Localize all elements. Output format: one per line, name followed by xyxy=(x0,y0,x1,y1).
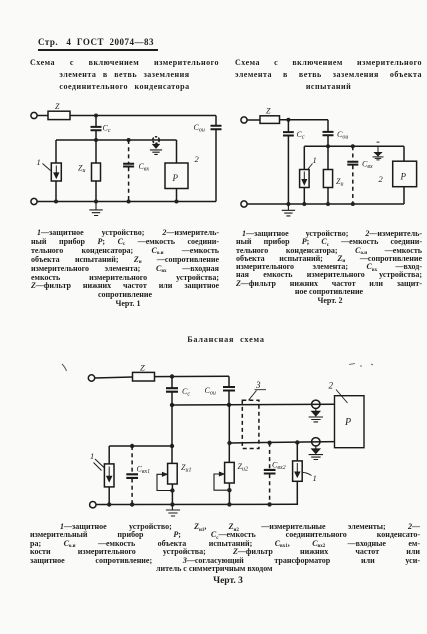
wire fig3: bottom bus xyxy=(96,503,297,505)
ground under inner bus fig2 xyxy=(373,142,384,160)
scan speckle near fig3 input xyxy=(62,364,67,371)
wire fig3: right device 1 to bottom bus corner xyxy=(295,481,297,504)
junction: left sub-bus at C_вх1 xyxy=(130,444,134,448)
right column heading xyxy=(235,57,422,93)
junction: bottom bus at Z_и2 xyxy=(227,502,231,506)
capacitor C_c fig1: upper lead xyxy=(95,116,97,127)
junction: left sub-bus at Z_и1 xyxy=(170,444,174,448)
svg-text:Zи1: Zи1 xyxy=(181,463,191,474)
capacitor C_ои fig1: upper lead on right drop xyxy=(215,116,217,126)
wire fig2: Z_и to bottom bus xyxy=(327,188,329,205)
shield circle on lower bus fig3 xyxy=(312,438,320,446)
wire fig2: top bus from Z to C_ои corner xyxy=(280,119,329,121)
junction: fig2 bottom bus at Z_и xyxy=(326,202,330,206)
capacitor C_вх2 fig3: dashed lower lead xyxy=(269,474,271,504)
wire fig1: P to bottom bus xyxy=(176,189,178,202)
junction: fig2 bottom bus at C_c xyxy=(286,202,290,206)
capacitor C_c fig1: plates xyxy=(91,127,102,130)
right caption under fig 2 xyxy=(236,230,422,296)
capacitor C_c fig3: upper lead xyxy=(171,377,173,388)
junction: bottom bus at C_вх xyxy=(127,200,131,204)
svg-text:3: 3 xyxy=(255,380,261,390)
capacitor C_вх fig2: dashed upper lead xyxy=(352,146,354,161)
svg-text:P: P xyxy=(400,172,407,182)
capacitor C_ои fig3: lower lead xyxy=(228,391,230,405)
svg-text:Cвх1: Cвх1 xyxy=(137,465,151,476)
junction: fig2 bottom bus at device 1 xyxy=(302,202,306,206)
junction: bottom bus at C_вх2 xyxy=(267,502,271,506)
capacitor C_c fig3: plates xyxy=(166,388,178,392)
wire fig1: device 1 to bottom bus xyxy=(55,181,57,202)
measuring element Z_и fig2 xyxy=(323,170,332,188)
capacitor C_ои fig1: plates xyxy=(211,126,222,129)
wire fig2: device 1 to bottom bus xyxy=(303,188,305,205)
measuring element Z_и1 fig3 xyxy=(168,463,178,484)
wire fig3: lower bus through transformer to P xyxy=(230,442,335,443)
scan speckle right of label 2 fig3 xyxy=(349,364,373,367)
svg-text:2: 2 xyxy=(379,174,384,184)
svg-text:Cвх: Cвх xyxy=(362,160,373,171)
capacitor C_ои fig2: lower lead xyxy=(327,136,329,146)
wire fig3: corner down to left device 1 xyxy=(108,446,110,464)
svg-text:Cои: Cои xyxy=(337,130,348,141)
svg-text:Cc: Cc xyxy=(103,124,111,135)
wire fig2: terminal to resistor Z xyxy=(247,119,260,121)
terminal: fig2 top-left input xyxy=(241,117,247,123)
svg-text:Zи: Zи xyxy=(336,177,343,188)
junction: Z_и1 loop tap xyxy=(170,488,174,492)
left caption under fig 1 xyxy=(31,229,219,300)
capacitor C_вх1 fig3: dashed lower lead xyxy=(131,479,133,505)
svg-text:Z: Z xyxy=(140,363,145,373)
capacitor C_c fig2: plates xyxy=(283,132,294,135)
header rule xyxy=(38,49,158,51)
capacitor C_c fig1: lower lead xyxy=(95,131,97,140)
svg-text:1: 1 xyxy=(37,157,41,167)
junction: bottom bus at C_вх1 xyxy=(130,502,134,506)
resistor Z (фильтр) fig1 xyxy=(48,111,70,119)
wire fig2: inner bus corner down to instrument P xyxy=(403,146,405,161)
junction: bottom bus at device 1 xyxy=(54,200,58,204)
adjustment loop arrow Z_и2 fig3 xyxy=(214,474,229,490)
middle heading xyxy=(150,335,302,344)
ground at bottom bus fig3 xyxy=(166,505,180,517)
junction: lower bus at Z_и2 xyxy=(227,441,231,445)
capacitor C_ои fig2: plates xyxy=(323,132,334,135)
capacitor C_вх fig1: plates xyxy=(123,164,134,167)
ground under shield circle fig1 xyxy=(150,143,162,154)
junction: fig2 bottom bus at C_вх xyxy=(351,202,355,206)
junction: lower bus at C_вх2 xyxy=(267,441,271,445)
svg-text:Cвх2: Cвх2 xyxy=(272,461,286,472)
instrument P fig3 (box 2) xyxy=(335,396,365,448)
svg-text:Z: Z xyxy=(266,107,271,116)
capacitor C_вх2 fig3: dashed upper lead xyxy=(269,443,271,470)
wire fig3: left sub-bus xyxy=(109,445,172,447)
junction: bottom bus at P xyxy=(175,200,179,204)
wire fig1: top bus from Z to right edge xyxy=(70,115,216,117)
svg-text:Cc: Cc xyxy=(182,387,190,398)
svg-text:1: 1 xyxy=(313,155,317,165)
svg-text:Cои: Cои xyxy=(194,123,205,134)
junction: fig3 top wire at C_c xyxy=(170,374,174,378)
ground under upper shield circle fig3 xyxy=(309,409,323,422)
measuring element Z_и2 fig3 xyxy=(225,462,235,483)
wire fig1: Z_и to bottom bus xyxy=(95,181,97,202)
junction: bottom bus at left device 1 xyxy=(107,502,111,506)
junction: fig3 upper bus at C_c xyxy=(170,403,174,407)
page header xyxy=(38,37,154,47)
wire fig3: resistor to C_ои corner xyxy=(155,375,230,377)
capacitor C_ои fig3: corner lead xyxy=(228,376,230,386)
svg-text:1: 1 xyxy=(313,473,317,483)
adjustment loop arrow Z_и1 fig3 xyxy=(157,474,172,490)
wire fig1: terminal to resistor Z xyxy=(37,115,48,117)
terminal: fig1 bottom-left xyxy=(31,198,37,204)
wire fig3: right device 1 upper lead xyxy=(296,442,298,461)
junction: Z_и2 loop tap xyxy=(227,488,231,492)
junction: bottom bus at Z_и xyxy=(94,200,98,204)
capacitor C_вх fig2: plates xyxy=(347,162,358,165)
terminal: fig3 top-left input xyxy=(88,375,94,381)
resistor Z fig2 xyxy=(260,116,280,124)
capacitor C_вх1 fig3: plates xyxy=(126,474,138,478)
shield circle on middle bus fig1 xyxy=(153,137,160,144)
wire fig3: upper bus to instrument P xyxy=(172,403,335,406)
junction: fig1 top bus at C_c tap xyxy=(94,114,98,118)
protective device 1 (right) fig3 xyxy=(293,461,303,481)
svg-text:Cвх: Cвх xyxy=(139,162,150,173)
terminal: fig2 bottom-left xyxy=(241,201,247,207)
wire fig3: Z_и1 vertical from upper bus through sub-bus xyxy=(171,405,173,463)
wire fig2: bottom bus xyxy=(247,203,404,205)
capacitor C_ои fig3: plates xyxy=(223,387,235,391)
ground at bottom bus fig2 xyxy=(282,204,295,216)
capacitor C_c fig2: lower lead to bottom bus xyxy=(287,136,289,204)
wire fig1: middle bus xyxy=(56,139,177,141)
wire fig3: Z_и1 to bottom bus xyxy=(171,484,173,505)
shield circle on upper bus fig3 xyxy=(312,400,320,408)
instrument P fig2 (box 2) xyxy=(393,161,417,187)
junction: lower bus at right device 1 xyxy=(295,440,299,444)
terminal: fig1 top-left input xyxy=(31,112,37,118)
bottom caption under fig 3 xyxy=(30,523,420,574)
wire fig3: Z_и2 to bottom bus xyxy=(228,483,230,504)
svg-text:1: 1 xyxy=(90,451,94,461)
capacitor C_вх fig1: dashed upper lead xyxy=(128,140,130,163)
capacitor C_вх1 fig3: dashed upper lead xyxy=(131,446,133,474)
junction: fig2 top bus at C_c xyxy=(286,118,290,122)
capacitor C_c fig2: upper lead xyxy=(287,120,289,132)
junction: middle bus at Z_и xyxy=(94,138,98,142)
wire fig1: branch down to Z_и xyxy=(95,140,97,163)
measuring element Z_и fig1 xyxy=(92,163,101,181)
wire fig2: Z_и upper lead xyxy=(327,146,329,169)
junction: inner bus at Z_и xyxy=(326,144,330,148)
junction: inner bus at C_вх xyxy=(351,144,355,148)
wire fig1: bottom bus xyxy=(37,201,216,203)
wire fig1: middle bus corner down to instrument P xyxy=(176,140,178,163)
capacitor C_ои fig2: corner lead xyxy=(327,120,329,131)
svg-text:P: P xyxy=(344,417,351,428)
wire fig3: Z_и2 vertical from upper bus to lower bus xyxy=(228,405,230,463)
protective device 1 fig2 (box with arrow) xyxy=(300,170,310,188)
terminal: fig3 bottom-left xyxy=(90,502,96,508)
capacitor C_c fig3: lower lead xyxy=(171,392,173,405)
ground under lower shield circle fig3 xyxy=(309,446,323,460)
svg-text:2: 2 xyxy=(195,154,200,164)
svg-text:2: 2 xyxy=(329,381,334,391)
wire fig2: P to bottom bus xyxy=(403,187,405,204)
capacitor C_вх fig2: dashed lower lead xyxy=(352,165,354,204)
protective device 1 fig1 (box with arrow) xyxy=(51,163,61,181)
svg-text:Z: Z xyxy=(55,102,60,111)
svg-text:Cои: Cои xyxy=(205,386,216,397)
ground at bottom bus fig1 xyxy=(89,202,102,216)
resistor Z fig3 xyxy=(133,372,155,381)
svg-text:P: P xyxy=(172,173,179,183)
svg-text:Zи2: Zи2 xyxy=(238,462,248,473)
junction: middle bus at C_вх xyxy=(127,138,131,142)
svg-text:Zи: Zи xyxy=(78,164,85,175)
instrument P fig1 (box 2) xyxy=(165,163,188,189)
svg-text:Cc: Cc xyxy=(297,130,305,141)
wire fig1: branch down to protective device 1 xyxy=(55,140,57,163)
protective device 1 (left) fig3 xyxy=(104,464,114,487)
left column heading xyxy=(30,57,219,93)
junction: fig3 upper bus at C_ои xyxy=(227,403,231,407)
capacitor C_вх2 fig3: plates xyxy=(264,470,276,474)
wire fig3: left device 1 to bottom bus xyxy=(108,487,110,505)
wire fig2: inner bus xyxy=(304,145,404,147)
capacitor C_вх fig1: dashed lower lead xyxy=(128,167,130,201)
wire fig1: right drop from C_ои to bottom bus xyxy=(215,130,217,202)
wire fig3: terminal to resistor Z xyxy=(95,377,133,378)
junction: bottom bus at Z_и1 xyxy=(170,502,174,506)
wire fig2: inner bus corner down to device 1 xyxy=(303,146,305,169)
matching transformer 3 (dashed box) fig3 xyxy=(242,400,259,448)
